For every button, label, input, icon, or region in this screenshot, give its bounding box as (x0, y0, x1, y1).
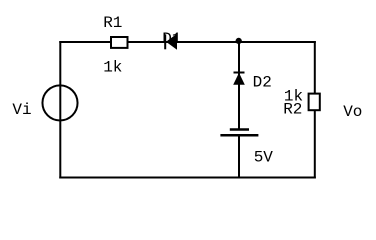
svg-text:D2: D2 (253, 74, 272, 92)
svg-text:Vi: Vi (12, 101, 31, 119)
svg-text:1k: 1k (103, 59, 122, 77)
svg-text:R1: R1 (103, 14, 122, 32)
svg-text:5V: 5V (254, 148, 274, 166)
svg-text:R2: R2 (283, 101, 302, 119)
svg-text:Vo: Vo (343, 103, 362, 121)
svg-text:D1: D1 (162, 30, 181, 48)
